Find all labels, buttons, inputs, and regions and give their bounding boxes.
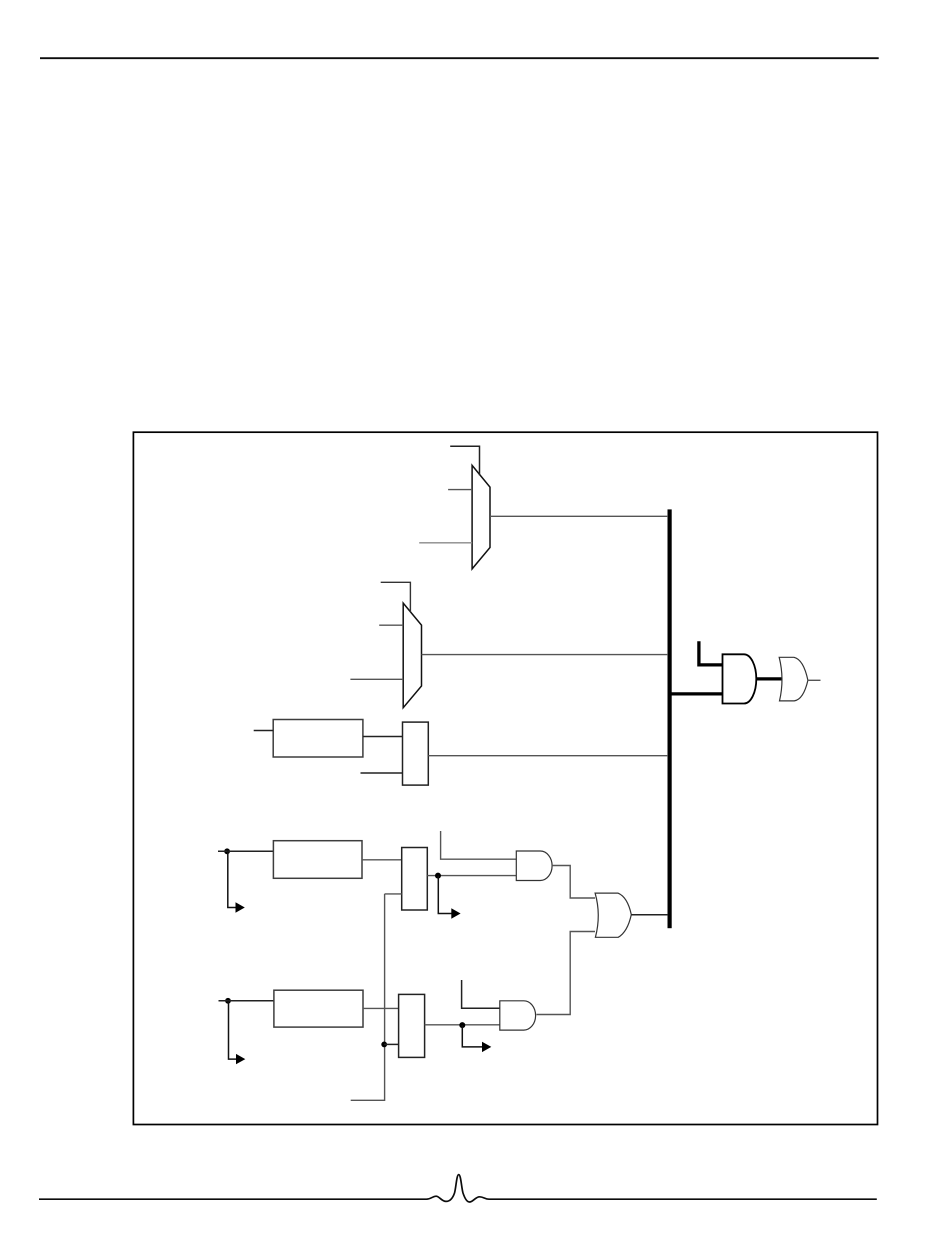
register REG2 xyxy=(273,841,362,879)
decoder U2 xyxy=(403,722,429,785)
wire U3 output xyxy=(427,875,516,877)
wire G3 output to G5 xyxy=(552,866,595,899)
wire REG2 to U3 xyxy=(362,859,402,861)
wire REG3 input xyxy=(219,1000,274,1002)
node N6 junction dot xyxy=(381,1042,387,1048)
decoder U3 xyxy=(402,848,428,911)
wire M2 select xyxy=(381,582,411,611)
node N3 input dot xyxy=(224,848,230,854)
AND gate G4 xyxy=(500,1001,536,1030)
wire G1 select stub (bold) xyxy=(699,641,723,665)
bus (thick vertical data bus) xyxy=(668,509,672,928)
wire M2 output to bus xyxy=(422,654,669,656)
wire M1 select xyxy=(450,446,479,475)
wire G3 select stub xyxy=(441,831,517,859)
wire M2 input B xyxy=(350,678,403,680)
wire U2 lower input xyxy=(361,772,403,774)
wire REG1 to U2 xyxy=(363,736,403,738)
wire G1 lower input from bus (bold) xyxy=(670,692,723,695)
mux M1 xyxy=(472,465,490,569)
wire REG3 to U4 xyxy=(363,1007,399,1009)
arrow A5 (clock tap) xyxy=(229,1001,237,1059)
wire U3 lower input from long net xyxy=(385,893,402,895)
node N7 dot xyxy=(459,1022,465,1028)
header rule xyxy=(40,57,879,59)
register REG1 xyxy=(273,720,363,758)
wire G4 select stub xyxy=(462,980,500,1008)
wire N6 to U4 xyxy=(384,1043,398,1045)
node N5 input dot xyxy=(225,998,231,1004)
OR gate G5 xyxy=(595,893,631,937)
mux M2 xyxy=(403,603,421,708)
figure frame xyxy=(133,432,877,1124)
AND gate G3 xyxy=(516,851,552,881)
wire G1 output (bold) xyxy=(756,677,782,680)
arrow A4 xyxy=(438,876,451,914)
wire G2 output xyxy=(808,679,821,681)
wire M2 input A xyxy=(379,624,403,626)
wire G5 output to bus xyxy=(631,914,668,916)
footer rule with pulse glyph xyxy=(39,1175,877,1202)
wire REG2 input xyxy=(218,850,273,852)
wire REG1 input xyxy=(254,730,274,732)
wire U4 output xyxy=(425,1024,500,1026)
arrow A7 xyxy=(462,1025,482,1047)
OR gate G2 xyxy=(779,657,808,701)
long vertical net to U3/U4 xyxy=(351,894,385,1100)
wire M1 input B xyxy=(419,542,472,544)
node N4 dot xyxy=(435,873,441,879)
AND gate G1 (bold) xyxy=(723,654,757,703)
wire G4 output to G5 xyxy=(536,932,595,1015)
wire M1 input A xyxy=(448,489,472,491)
arrow A3 (clock tap) xyxy=(228,851,236,907)
decoder U4 xyxy=(399,994,425,1057)
wire M1 output to bus xyxy=(490,515,668,517)
register REG3 xyxy=(274,990,363,1027)
wire U2 output to bus xyxy=(428,755,668,757)
